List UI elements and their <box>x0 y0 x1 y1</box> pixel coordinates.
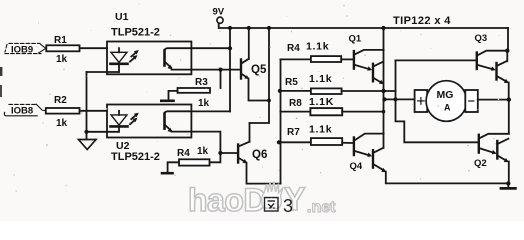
svg-text:IOB9: IOB9 <box>11 45 33 56</box>
svg-text:Q4: Q4 <box>350 161 363 172</box>
svg-text:R8: R8 <box>289 98 302 109</box>
svg-text:R7: R7 <box>287 127 300 138</box>
svg-text:1k: 1k <box>198 98 210 109</box>
svg-text:R1: R1 <box>54 35 67 46</box>
svg-text:R3: R3 <box>195 77 208 88</box>
svg-text:1k: 1k <box>197 146 209 157</box>
svg-text:.net: .net <box>307 199 336 216</box>
svg-text:TLP521-2: TLP521-2 <box>111 151 160 163</box>
svg-text:IOB8: IOB8 <box>11 106 33 117</box>
svg-text:9V: 9V <box>213 7 225 18</box>
svg-text:MG: MG <box>437 89 454 101</box>
svg-text:Q6: Q6 <box>252 149 267 161</box>
svg-text:1.1k: 1.1k <box>306 41 329 53</box>
svg-text:U1: U1 <box>115 11 129 23</box>
svg-text:Q3: Q3 <box>475 33 488 44</box>
svg-text:haoD: haoD <box>188 182 266 218</box>
svg-text:3: 3 <box>283 196 293 216</box>
svg-text:R4: R4 <box>177 148 190 159</box>
svg-text:Q5: Q5 <box>251 64 267 76</box>
svg-text:TLP521-2: TLP521-2 <box>111 27 160 39</box>
svg-text:1k: 1k <box>56 118 68 129</box>
svg-text:1.1K: 1.1K <box>309 96 334 108</box>
svg-text:A: A <box>444 103 451 113</box>
svg-text:1.1k: 1.1k <box>309 124 332 136</box>
svg-text:Q2: Q2 <box>474 158 487 169</box>
svg-text:R5: R5 <box>285 77 298 88</box>
svg-text:1k: 1k <box>56 54 68 65</box>
svg-text:1.1k: 1.1k <box>309 73 332 85</box>
svg-text:R4: R4 <box>287 43 300 54</box>
svg-text:TIP122 x 4: TIP122 x 4 <box>393 15 451 27</box>
svg-text:Q1: Q1 <box>349 34 362 45</box>
svg-text:R2: R2 <box>54 95 67 106</box>
